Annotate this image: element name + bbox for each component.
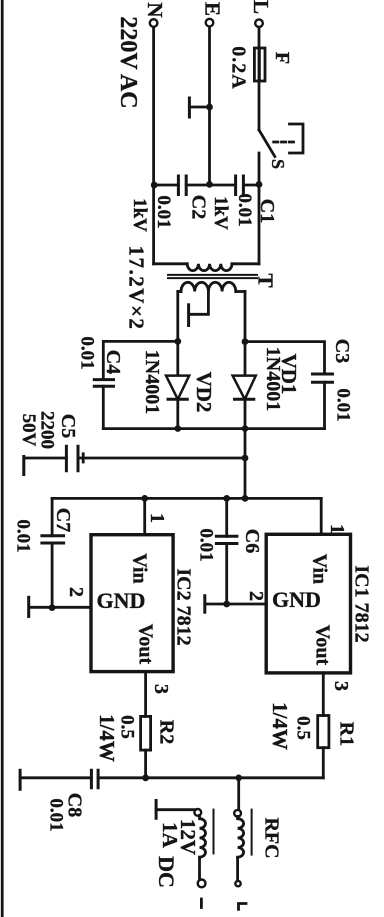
svg-text:0.2A: 0.2A: [228, 46, 250, 89]
svg-text:RFC: RFC: [261, 817, 283, 858]
svg-text:3: 3: [150, 684, 172, 694]
svg-text:1/4W: 1/4W: [268, 702, 292, 750]
svg-text:S: S: [268, 159, 288, 169]
svg-text:1N4001: 1N4001: [141, 350, 163, 414]
svg-text:1/4W: 1/4W: [95, 714, 119, 762]
svg-text:3: 3: [330, 681, 352, 691]
svg-text:C3: C3: [331, 339, 353, 363]
svg-text:IC2 7812: IC2 7812: [173, 568, 195, 645]
svg-text:Vin: Vin: [129, 553, 151, 583]
svg-text:0.01: 0.01: [153, 195, 174, 228]
svg-text:C6: C6: [241, 529, 263, 553]
svg-text:1: 1: [326, 524, 348, 534]
svg-text:0.5: 0.5: [293, 716, 314, 740]
svg-text:T: T: [254, 273, 278, 287]
svg-text:E: E: [201, 2, 225, 16]
svg-text:C5: C5: [57, 414, 79, 438]
svg-text:L: L: [249, 0, 273, 14]
svg-text:F: F: [271, 52, 293, 64]
svg-text:2: 2: [65, 587, 87, 597]
svg-text:DC: DC: [154, 856, 179, 888]
svg-text:1kV: 1kV: [210, 196, 231, 230]
svg-text:Vout: Vout: [312, 625, 334, 666]
svg-text:N: N: [143, 2, 167, 17]
svg-text:C4: C4: [102, 350, 124, 374]
svg-text:50V: 50V: [18, 414, 39, 447]
svg-text:GND: GND: [272, 587, 321, 612]
svg-text:0.01: 0.01: [196, 528, 217, 561]
svg-text:0.01: 0.01: [77, 336, 98, 369]
svg-text:C2: C2: [188, 195, 210, 219]
svg-text:0.01: 0.01: [13, 519, 34, 552]
svg-text:0.01: 0.01: [234, 193, 255, 226]
svg-text:R2: R2: [156, 720, 178, 744]
svg-text:2: 2: [245, 591, 267, 601]
svg-text:1A: 1A: [158, 822, 182, 849]
svg-text:Vin: Vin: [309, 554, 331, 584]
svg-text:1: 1: [146, 513, 168, 523]
svg-text:C1: C1: [256, 199, 278, 223]
svg-text:Vout: Vout: [135, 624, 157, 665]
svg-text:1kV: 1kV: [129, 198, 150, 232]
svg-text:220V AC: 220V AC: [115, 16, 141, 108]
svg-text:VD2: VD2: [192, 372, 216, 413]
svg-text:0.01: 0.01: [46, 798, 67, 831]
svg-text:1N4001: 1N4001: [262, 347, 284, 411]
svg-text:GND: GND: [97, 588, 146, 613]
svg-text:C7: C7: [52, 508, 74, 532]
svg-text:0.01: 0.01: [333, 388, 354, 421]
svg-text:17.2V×2: 17.2V×2: [125, 246, 149, 331]
svg-text:IC1 7812: IC1 7812: [351, 565, 373, 642]
svg-text:R1: R1: [336, 722, 358, 746]
